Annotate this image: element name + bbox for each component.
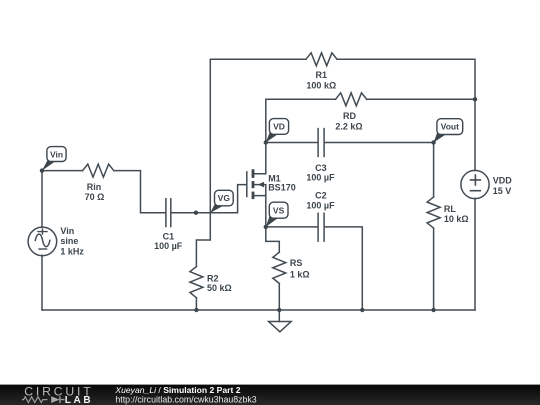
svg-text:http://circuitlab.com/cwku3hau: http://circuitlab.com/cwku3hau8zbk3 [115, 394, 256, 404]
svg-text:15 V: 15 V [493, 186, 512, 196]
svg-text:RS: RS [290, 258, 303, 268]
svg-text:100 µF: 100 µF [306, 200, 335, 210]
svg-text:10 kΩ: 10 kΩ [444, 214, 469, 224]
svg-text:VS: VS [273, 205, 285, 215]
svg-text:100 µF: 100 µF [306, 173, 335, 183]
svg-text:100 µF: 100 µF [154, 241, 183, 251]
svg-text:VDD: VDD [493, 176, 513, 186]
svg-text:RL: RL [444, 204, 456, 214]
svg-text:Rin: Rin [87, 182, 102, 192]
svg-text:1 kΩ: 1 kΩ [290, 270, 310, 280]
svg-text:Vin: Vin [50, 150, 63, 160]
svg-text:C2: C2 [315, 190, 327, 200]
svg-text:C3: C3 [315, 163, 327, 173]
svg-text:VD: VD [273, 122, 285, 132]
svg-text:Vout: Vout [441, 122, 459, 132]
svg-text:100 kΩ: 100 kΩ [306, 81, 336, 91]
svg-text:Vin: Vin [60, 226, 74, 236]
svg-text:C1: C1 [163, 232, 175, 242]
svg-text:BS170: BS170 [268, 182, 296, 192]
svg-text:R2: R2 [207, 274, 219, 284]
svg-text:LAB: LAB [65, 395, 93, 405]
svg-text:1 kHz: 1 kHz [60, 246, 84, 256]
svg-text:VG: VG [218, 193, 231, 203]
svg-text:2.2 kΩ: 2.2 kΩ [335, 122, 362, 132]
svg-text:R1: R1 [316, 70, 328, 80]
svg-text:RD: RD [343, 111, 356, 121]
svg-text:sine: sine [60, 236, 78, 246]
svg-text:50 kΩ: 50 kΩ [207, 283, 232, 293]
svg-text:70 Ω: 70 Ω [85, 192, 105, 202]
